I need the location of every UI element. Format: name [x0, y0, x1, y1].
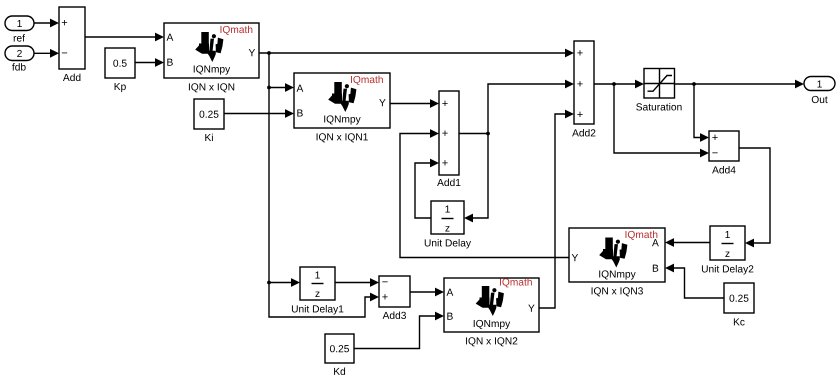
wire: trunk down to Add3 + [269, 53, 379, 317]
multiplier U1 IQNmpy (IQN x IQN) [164, 23, 259, 92]
wire: Add4 output to Unit Delay2 input [739, 148, 770, 247]
wire: Ki to IQN x IQN1 B [224, 109, 294, 118]
wire: Unit Delay2 output to IQN x IQN3 A [665, 238, 710, 247]
input port 2 (fdb) [5, 46, 34, 71]
wire: branch to Unit Delay1 input [269, 278, 300, 287]
gain constant Kc (0.25) [724, 283, 754, 326]
junction node on Add1 output [486, 132, 490, 136]
wire: port fdb to Add - [34, 49, 59, 58]
sum block Add3 [379, 276, 410, 319]
wire: Unit Delay1 output to Add3 - [335, 278, 379, 287]
wire: IQN x IQN1 Y to Add1 input 1 [390, 99, 439, 108]
sum block Add4 [709, 131, 739, 174]
wire: Add output to IQNmpy A [85, 33, 164, 42]
sum block Add [59, 7, 85, 81]
wire: post-saturation branch to Add4 + [694, 84, 709, 142]
wire: IQN x IQN3 Y to Add1 input 2 [400, 129, 569, 257]
wire: Saturation output to Out port [675, 80, 805, 89]
wire: Unit Delay output to Add1 input 3 [415, 159, 439, 218]
saturation block [636, 69, 681, 111]
wire: pre-saturation branch to Add4 - [614, 84, 709, 157]
junction node on Y wire [267, 51, 271, 55]
wire: Add1 output down to Unit Delay input [464, 134, 488, 223]
gain constant Ki (0.25) [194, 99, 224, 141]
wire: Add2 output to Saturation [594, 80, 644, 89]
wire: Kp to IQNmpy B [135, 58, 164, 67]
wire: Add3 output to IQN x IQN2 A [410, 288, 444, 297]
junction node after Saturation [692, 82, 696, 86]
multiplier U3 IQNmpy mirrored (IQN x IQN3) [569, 228, 665, 296]
sum block Add1 [437, 91, 460, 186]
unit delay block Unit Delay1 (1/z) [292, 267, 343, 315]
output port 1 (Out) [804, 77, 835, 104]
input port 1 (ref) [5, 16, 34, 42]
gain constant Kp (0.5) [105, 48, 135, 92]
wire: Add1 output up to Add2 input 2 [459, 80, 574, 134]
wire: Kd to IQN x IQN2 B [354, 312, 444, 349]
sum block Add2 [572, 41, 595, 137]
wire: IQN x IQN2 Y to Add2 input 3 [539, 110, 574, 308]
wire: branch to IQN x IQN1 A [269, 83, 294, 92]
wire: IQNmpy Y to Add2 input 1 [259, 49, 574, 58]
gain constant Kd (0.25) [325, 334, 354, 375]
wire: Kc to IQN x IQN3 B [665, 264, 724, 298]
junction node at IQN1 A branch [267, 86, 271, 90]
multiplier U2 IQNmpy (IQN x IQN1) [294, 73, 390, 142]
unit delay block Unit Delay (1/z) [425, 201, 471, 249]
multiplier U4 IQNmpy (IQN x IQN2) [444, 278, 539, 346]
junction node at Unit Delay1 branch [267, 281, 271, 285]
unit delay block Unit Delay2 (1/z) [702, 226, 753, 275]
wire: port ref to Add + [34, 19, 59, 28]
junction node before Saturation [612, 82, 616, 86]
